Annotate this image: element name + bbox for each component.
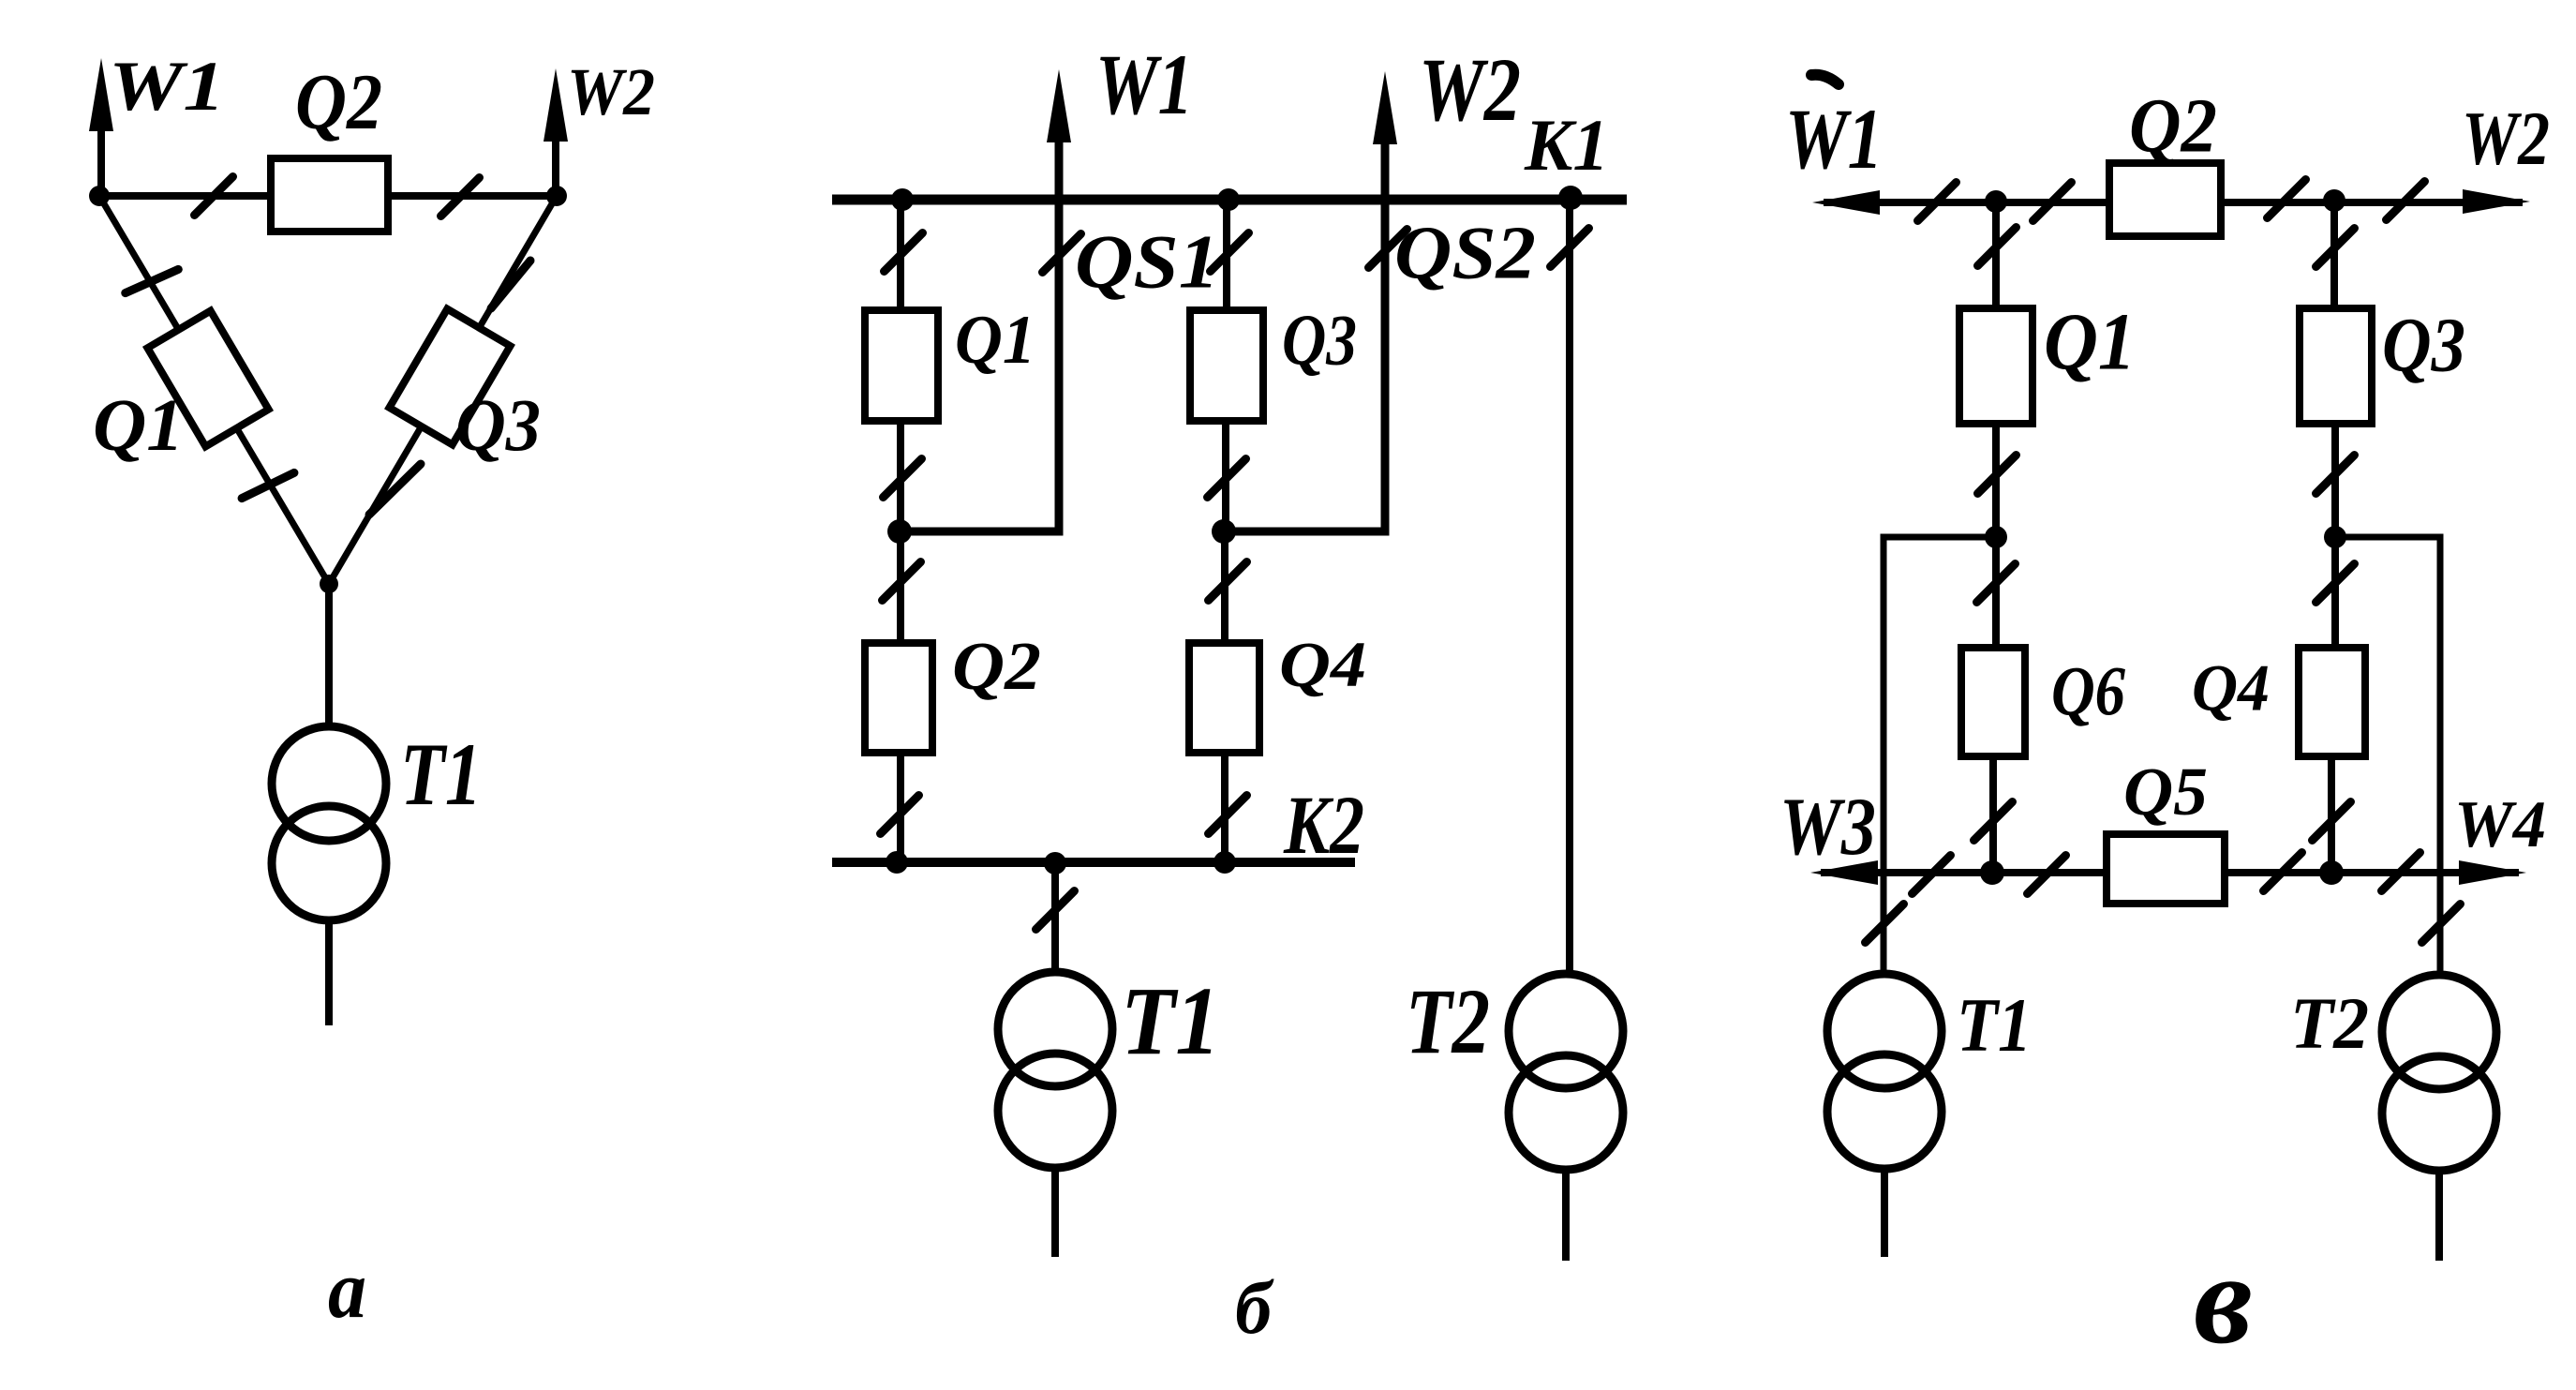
wire top bus to Q1 (scheme b) [897, 200, 904, 310]
disconnector slash left of node D (scheme v) [2264, 853, 2302, 891]
wire Q3 to node (scheme b) [1222, 421, 1229, 531]
wire node A to Q6 (scheme v) [1992, 537, 2000, 648]
disconnector slash on T2 lead below bus (scheme v) [2422, 904, 2461, 943]
disconnector slash below Q3 (scheme v) [2316, 456, 2355, 494]
svg-text:W1: W1 [1785, 91, 1883, 187]
disconnector slash on K1 branch (scheme b) [1551, 229, 1589, 267]
wire top busbar (scheme b) [832, 195, 1627, 205]
disconnector slash below Q4 (scheme v) [2313, 802, 2351, 841]
svg-text:а: а [328, 1244, 366, 1336]
svg-text:Q2: Q2 [952, 628, 1041, 704]
breaker Q3 (scheme a) [389, 309, 510, 445]
svg-text:б: б [1235, 1265, 1274, 1350]
breaker Q4 (scheme b) [1189, 643, 1259, 753]
svg-text:Q5: Q5 [2123, 754, 2208, 830]
node K1 (scheme b) [1558, 186, 1583, 210]
disconnector slash left of node L (scheme v) [1918, 183, 1957, 221]
svg-text:T2: T2 [2290, 982, 2369, 1064]
disconnector slash above Q4 (scheme v) [2316, 564, 2355, 603]
disconnector slash left of node R (scheme v) [2268, 180, 2306, 218]
wire W2 feeder (scheme b) [1223, 142, 1385, 531]
wire Q1 to node (scheme b) [897, 421, 904, 531]
wire top tie bus (scheme a) [99, 192, 557, 200]
node B on bottom line (scheme v) [1980, 860, 2004, 885]
svg-text:W1: W1 [1095, 37, 1193, 132]
breaker Q2 (scheme b) [865, 643, 932, 753]
svg-text:Q1: Q1 [93, 384, 184, 467]
svg-text:Q4: Q4 [2192, 652, 2270, 725]
svg-text:QS1: QS1 [1075, 219, 1219, 305]
disconnector QS1 slash (scheme b) [1043, 234, 1081, 273]
wire below T2 (scheme b) [1562, 1170, 1570, 1261]
wire below T1 (scheme b) [1051, 1168, 1059, 1257]
svg-text:Q4: Q4 [1279, 629, 1366, 700]
breaker Q5 (scheme v) [2107, 834, 2225, 904]
svg-text:K1: K1 [1524, 104, 1609, 186]
wire node to Q2 (scheme b) [897, 531, 904, 643]
wire top line W1-W2 (scheme v) [1824, 199, 2523, 206]
wire bottom line W3-W4 (scheme v) [1821, 869, 2519, 876]
node bottom bus T1 tap (scheme b) [1044, 852, 1066, 874]
transformer T1 (scheme a) [272, 726, 386, 841]
svg-text:W4: W4 [2454, 788, 2546, 861]
wire node to Q4 (scheme b) [1221, 531, 1228, 643]
wire right leg of triangle (scheme a) [329, 196, 557, 584]
wire Q2 to bottom bus (scheme b) [897, 753, 904, 862]
breaker Q6 (scheme v) [1961, 648, 2025, 756]
node between Q1 and Q2 (scheme b) [887, 519, 912, 544]
disconnector slash below Q1 (scheme v) [1978, 456, 2017, 494]
svg-text:Q3: Q3 [1282, 299, 1357, 380]
svg-text:Q6: Q6 [2051, 653, 2125, 731]
svg-text:W3: W3 [1779, 781, 1876, 872]
disconnector slash below Q4 (scheme b) [1209, 796, 1247, 834]
svg-text:Q2: Q2 [295, 58, 382, 146]
wire Q4 to node D (scheme v) [2328, 756, 2335, 873]
disconnector slash below Q6 (scheme v) [1974, 802, 2013, 841]
wire Q1 to node A (scheme v) [1992, 424, 2000, 537]
svg-text:в: в [2194, 1227, 2253, 1370]
node branch 1 on top bus (scheme b) [891, 188, 914, 211]
wire bypass node A to transformer T1 (scheme v) [1884, 537, 1996, 975]
disconnector slash right of node B (scheme v) [2028, 856, 2066, 894]
node R on top line (scheme v) [2323, 189, 2345, 212]
node D on bottom line (scheme v) [2319, 860, 2344, 885]
disconnector slash right of node R (scheme v) [2387, 182, 2425, 220]
node bottom bus left (scheme b) [886, 851, 908, 874]
wire apex to transformer (scheme a) [325, 584, 333, 727]
disconnector slash left of Q2 (scheme a) [195, 177, 233, 216]
breaker Q1 (scheme a) [147, 311, 268, 447]
wire below transformer (scheme a) [325, 919, 333, 1025]
node branch 2 on top bus (scheme b) [1217, 188, 1240, 211]
breaker Q4 (scheme v) [2299, 648, 2365, 756]
breaker Q1 (scheme v) [1959, 308, 2033, 424]
disconnector slash lower-left leg (scheme a) [242, 472, 294, 498]
wire below T1 (scheme v) [1881, 1169, 1888, 1257]
disconnector slash above Q2 (scheme b) [883, 562, 921, 601]
svg-text:Q3: Q3 [455, 384, 541, 467]
disconnector slash right of node D (scheme v) [2382, 853, 2420, 891]
disconnector slash below Q1 (scheme b) [884, 459, 922, 498]
wire left leg of triangle (scheme a) [99, 196, 329, 584]
svg-text:T1: T1 [400, 725, 482, 824]
wire W2 feeder (scheme a) [552, 139, 559, 196]
breaker Q3 (scheme v) [2300, 308, 2372, 424]
wire node L to Q1 (scheme v) [1992, 202, 2000, 308]
node bottom bus right (scheme b) [1214, 851, 1236, 874]
wire below T2 (scheme v) [2435, 1171, 2443, 1261]
transformer T2 (scheme b) [1509, 974, 1623, 1088]
svg-text:W2: W2 [2462, 96, 2550, 181]
disconnector slash upper-left leg (scheme a) [126, 269, 179, 292]
node C (scheme v) [2324, 526, 2346, 548]
wire bottom busbar (scheme b) [832, 858, 1355, 867]
wire W1 feeder (scheme a) [97, 127, 105, 196]
disconnector slash right of Q2 (scheme a) [441, 178, 480, 217]
stray accent mark above W1 (scheme v) [1811, 75, 1839, 84]
wire Q3 to node C (scheme v) [2331, 424, 2339, 537]
node left (scheme a) [89, 186, 110, 206]
disconnector slash below Q3 (scheme b) [1208, 459, 1246, 498]
svg-text:T1: T1 [1957, 982, 2032, 1068]
disconnector slash above Q1 (scheme b) [885, 233, 923, 272]
disconnector slash above T1 (scheme b) [1036, 891, 1075, 930]
wire W1 feeder (scheme b) [899, 141, 1059, 531]
disconnector slash above Q3 (scheme v) [2316, 229, 2355, 267]
disconnector slash above Q1 (scheme v) [1978, 228, 2017, 266]
disconnector slash on T1 lead below bus (scheme v) [1866, 904, 1904, 943]
transformer T1 (scheme v) [1827, 974, 1942, 1088]
svg-text:Q2: Q2 [2129, 82, 2217, 168]
svg-text:QS2: QS2 [1394, 212, 1536, 295]
wire Q4 to bottom bus (scheme b) [1221, 753, 1228, 862]
disconnector QS2 slash (scheme b) [1369, 230, 1407, 268]
svg-text:W2: W2 [1419, 39, 1521, 140]
wire K1 to transformer T2 (scheme b) [1566, 200, 1573, 975]
disconnector slash lower-right leg (scheme a) [369, 464, 421, 515]
disconnector slash upper-right leg (scheme a) [491, 261, 530, 308]
disconnector slash above Q4 (scheme b) [1209, 562, 1247, 601]
disconnector slash above Q6 (scheme v) [1977, 564, 2016, 603]
svg-text:W2: W2 [567, 53, 655, 129]
disconnector slash below Q2 (scheme b) [881, 796, 919, 834]
svg-text:Q1: Q1 [2044, 297, 2136, 387]
wire node R to Q3 (scheme v) [2330, 201, 2338, 308]
wire Q6 to node B (scheme v) [1989, 756, 1997, 873]
svg-text:W1: W1 [109, 48, 225, 126]
disconnector slash above Q3 (scheme b) [1211, 233, 1249, 272]
node A (scheme v) [1985, 526, 2007, 548]
disconnector slash right of node L (scheme v) [2033, 183, 2072, 221]
svg-text:T1: T1 [1121, 966, 1220, 1075]
node right (scheme a) [546, 186, 567, 206]
wire top bus to Q3 (scheme b) [1223, 200, 1230, 310]
wire bottom bus to T1 (scheme b) [1051, 862, 1059, 975]
svg-text:Q1: Q1 [955, 302, 1035, 379]
breaker Q3 (scheme b) [1190, 310, 1263, 421]
node apex (scheme a) [320, 575, 338, 593]
node between Q3 and Q4 (scheme b) [1212, 519, 1236, 544]
disconnector slash bottom bus left (scheme v) [1913, 856, 1951, 894]
transformer T2 (scheme v) [2382, 975, 2496, 1089]
svg-text:T2: T2 [1406, 969, 1490, 1073]
svg-text:Q3: Q3 [2382, 301, 2465, 387]
wire node C to Q4 (scheme v) [2331, 537, 2339, 648]
breaker Q2 (scheme a) [271, 158, 388, 232]
wire bypass node C to transformer T2 (scheme v) [2335, 537, 2440, 975]
transformer T1 (scheme b) [998, 972, 1112, 1086]
node L on top line (scheme v) [1985, 190, 2007, 213]
breaker Q1 (scheme b) [865, 310, 938, 421]
breaker Q2 (scheme v) [2109, 163, 2221, 236]
